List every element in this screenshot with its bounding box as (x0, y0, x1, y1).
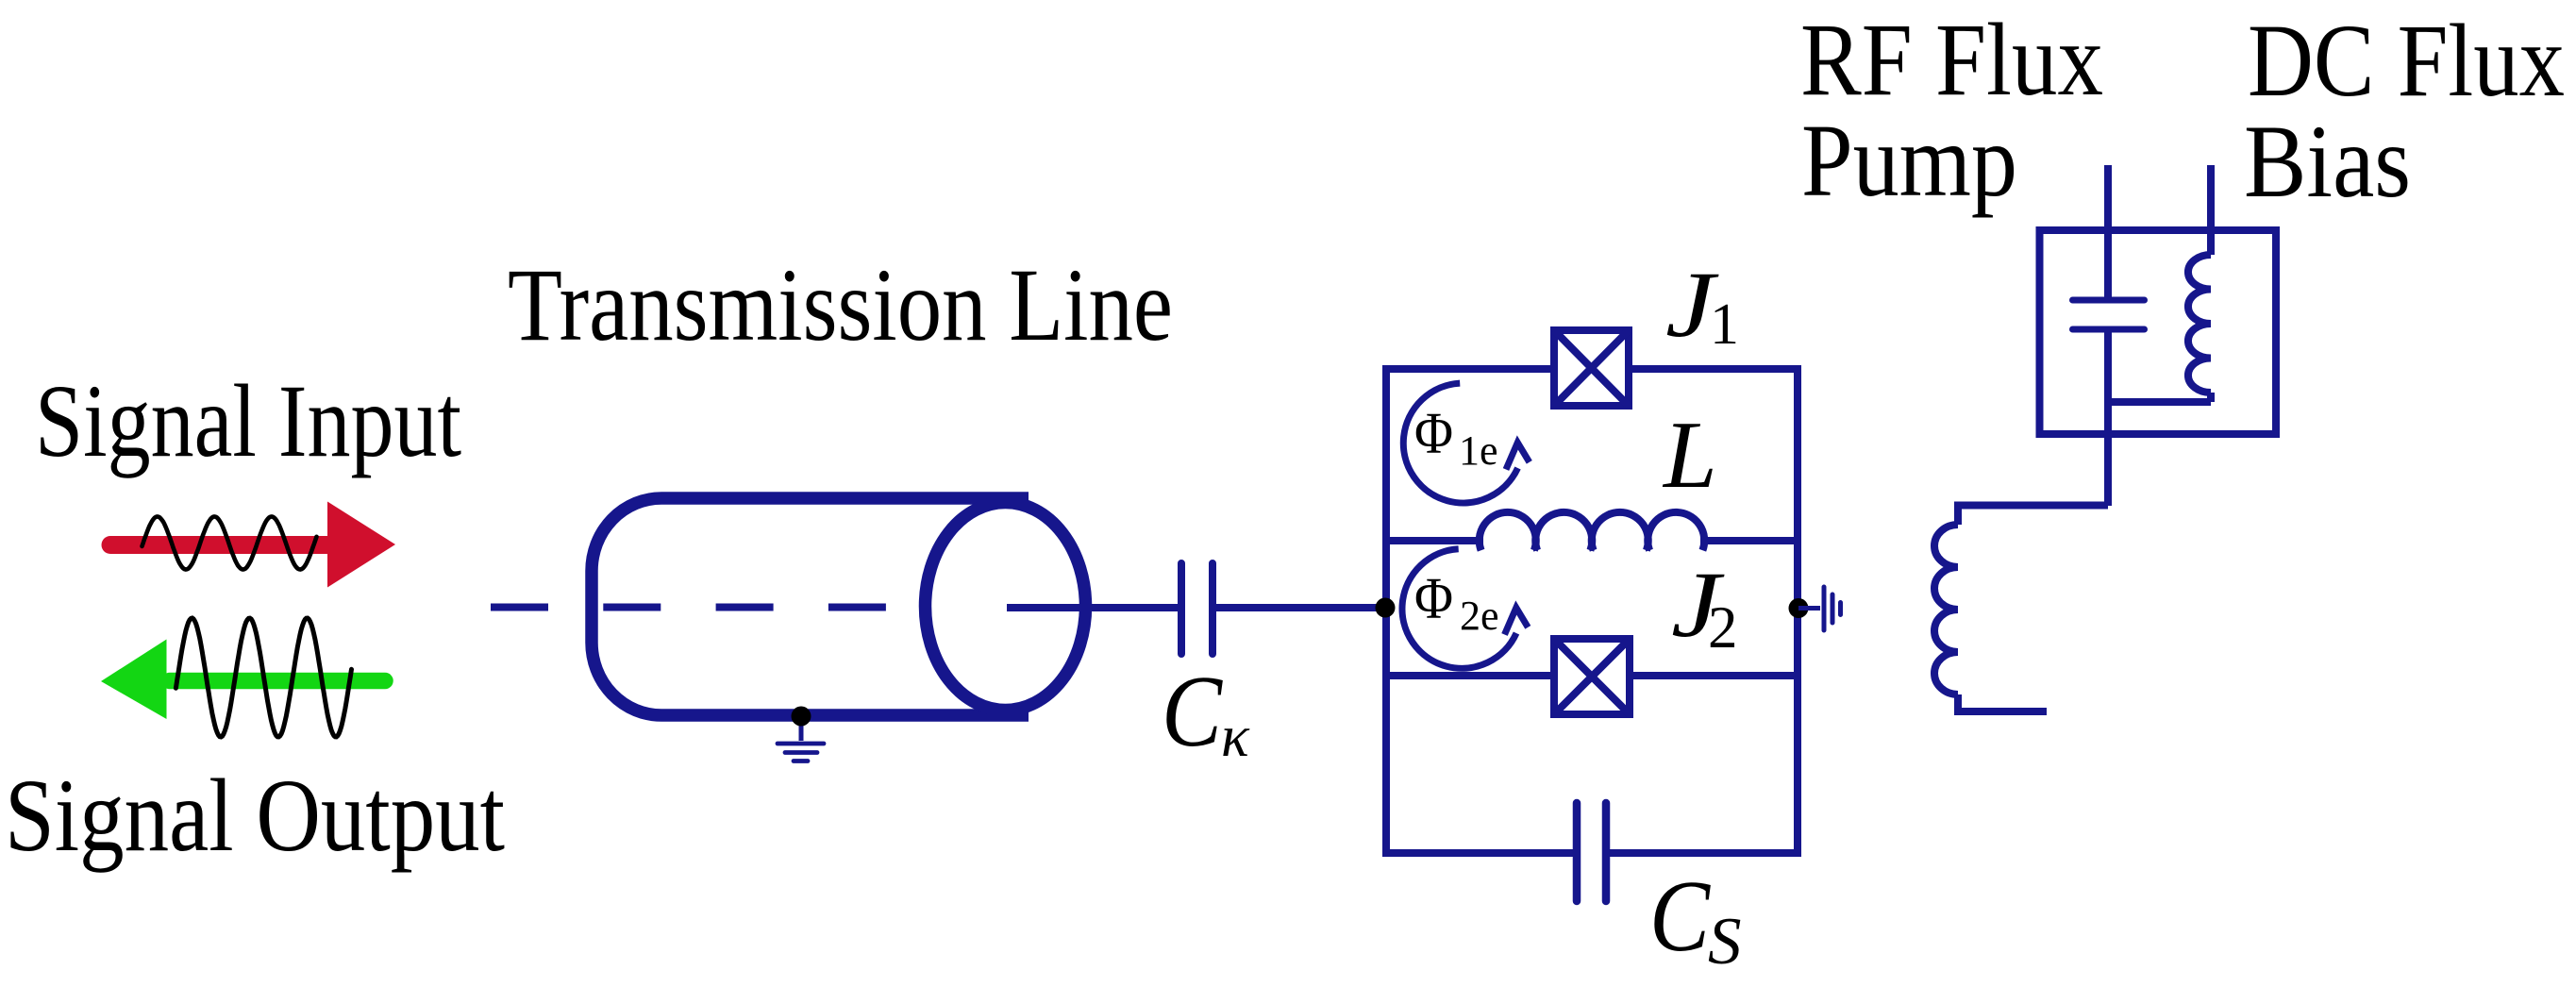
svg-text:RF Flux: RF Flux (1800, 2, 2103, 117)
capacitor CS (1577, 803, 1606, 901)
inductor L (1480, 512, 1704, 550)
node dot at squid right (1789, 598, 1809, 618)
svg-text:C: C (1162, 656, 1224, 768)
svg-text:Signal Output: Signal Output (5, 758, 505, 873)
svg-text:2: 2 (1708, 594, 1738, 661)
dc bias feed wire (2207, 165, 2215, 255)
svg-text:κ: κ (1221, 705, 1250, 769)
pump box enclosure (2040, 230, 2277, 434)
josephson junction J2 (1554, 639, 1630, 714)
svg-text:Bias: Bias (2244, 104, 2411, 219)
capacitor in pump box (2073, 300, 2145, 329)
signal input sine wave (142, 517, 317, 570)
wire from box to rf coil (1958, 506, 2108, 526)
svg-text:Signal Input: Signal Input (35, 363, 461, 478)
josephson junction J1 (1554, 330, 1629, 406)
svg-text:1: 1 (1710, 293, 1739, 357)
ground under transmission line (778, 707, 824, 761)
signal output sine wave (176, 618, 351, 737)
signal input arrow (red) (110, 502, 395, 588)
wire below rf coil (1958, 694, 2047, 711)
svg-text:1e: 1e (1459, 427, 1498, 474)
rf pump coupling coil (1934, 525, 1958, 694)
wire dashed coax center line (491, 604, 887, 611)
squid top wire (1382, 365, 1801, 373)
transmission line cylinder right end cap (926, 503, 1086, 711)
flux arrow phi1e (1403, 383, 1530, 503)
connector wire in pump box (2108, 398, 2211, 406)
flux arrow phi2e (1402, 549, 1528, 668)
squid middle wire (inductor row) (1382, 537, 1801, 544)
squid middle wire (J2 row) (1382, 672, 1801, 679)
node dot at squid input (1376, 598, 1396, 618)
squid loop right vertical wire (1794, 365, 1801, 857)
svg-text:2e: 2e (1460, 593, 1499, 639)
dc bias inductor (2188, 255, 2211, 393)
svg-text:S: S (1708, 905, 1742, 979)
svg-text:Transmission Line: Transmission Line (508, 247, 1173, 362)
svg-text:Pump: Pump (1801, 103, 2017, 218)
svg-text:L: L (1662, 402, 1717, 509)
wire from coax center to capacitor Ck (1007, 604, 1179, 611)
svg-text:Φ: Φ (1414, 567, 1453, 631)
svg-text:C: C (1649, 861, 1712, 973)
wire capacitor Ck to squid (1213, 604, 1386, 611)
svg-text:DC Flux: DC Flux (2248, 3, 2565, 118)
capacitor Ck (1181, 563, 1213, 654)
svg-text:Φ: Φ (1414, 402, 1453, 466)
squid loop left vertical wire (1382, 365, 1390, 857)
small ground right of squid (1798, 587, 1841, 630)
signal output arrow (green) (101, 640, 385, 720)
transmission line cylinder body (592, 498, 1029, 715)
squid bottom wire (1382, 849, 1801, 857)
rf pump feed wire (2104, 165, 2112, 300)
wire below dc inductor (2207, 393, 2215, 402)
wire below capacitor (2104, 329, 2112, 506)
